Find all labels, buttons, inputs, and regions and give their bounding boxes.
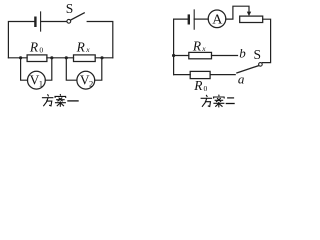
- svg-text:R: R: [193, 78, 202, 93]
- svg-text:2: 2: [89, 79, 93, 89]
- svg-text:R: R: [192, 38, 201, 53]
- svg-text:R: R: [29, 40, 38, 55]
- svg-text:b: b: [239, 46, 246, 61]
- svg-text:S: S: [66, 1, 74, 16]
- svg-text:x: x: [201, 44, 206, 53]
- svg-text:x: x: [85, 45, 90, 54]
- svg-text:a: a: [238, 71, 245, 86]
- svg-text:A: A: [212, 12, 223, 27]
- svg-text:0: 0: [204, 84, 208, 93]
- svg-text:0: 0: [39, 45, 43, 54]
- svg-text:1: 1: [39, 79, 43, 89]
- svg-text:S: S: [254, 47, 262, 62]
- svg-text:R: R: [76, 40, 85, 55]
